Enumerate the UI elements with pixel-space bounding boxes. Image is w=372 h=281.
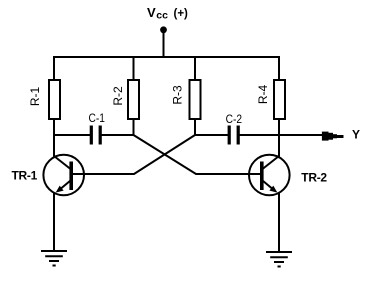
resistor R-1 body [49,80,60,119]
wire cross-couple R-2 junction to TR-2 base (diagonal) [134,135,250,174]
wire right coupling row (R-3 to C-2) [194,134,229,136]
wire C-2 to R-4 bottom junction [239,134,280,136]
wire TR-1 emitter to ground [53,193,55,251]
wire R-2 top lead [133,56,135,80]
transistor TR-1 [43,155,85,196]
node Vcc label [147,5,188,22]
svg-text:cc: cc [156,10,168,22]
svg-text:R-2: R-2 [111,86,125,106]
node Vcc terminal dot [160,26,167,33]
svg-text:R-3: R-3 [171,85,185,105]
svg-text:R-4: R-4 [256,85,270,105]
ground right [266,252,292,267]
ground left [41,251,67,266]
wire R-3 top lead [194,56,196,80]
wire R-3 bottom lead [194,119,196,136]
svg-text:TR-2: TR-2 [301,171,327,185]
wire R-1 bottom lead to TR-1 collector [53,119,55,157]
wire Vcc feed [163,30,165,58]
resistor R-4 body [274,80,285,119]
capacitor C-1 [90,126,102,145]
wire cross-couple R-3 junction to TR-1 base (diagonal) [85,135,195,174]
wire left coupling row (R-1 to C-1) [53,134,91,136]
wire R-2 bottom lead [133,119,135,136]
wire output Y [280,134,326,136]
wire C-1 to R-2 bottom junction [101,134,134,136]
svg-text:C-1: C-1 [88,112,104,125]
transistor TR-2 [248,155,290,196]
svg-text:TR-1: TR-1 [12,169,38,183]
svg-text:R-1: R-1 [28,87,42,107]
svg-text:C-2: C-2 [226,113,242,126]
wire TR-2 emitter to ground [278,193,280,252]
svg-text:V: V [147,5,156,20]
capacitor C-2 [228,126,240,145]
wire top supply bus [54,57,279,80]
resistor R-2 body [128,80,139,119]
arrowhead output Y [322,132,344,141]
svg-text:Y: Y [352,128,360,142]
wire R-4 bottom lead to TR-2 collector [278,119,280,157]
resistor R-3 body [190,80,201,119]
svg-text:(+): (+) [174,8,189,20]
